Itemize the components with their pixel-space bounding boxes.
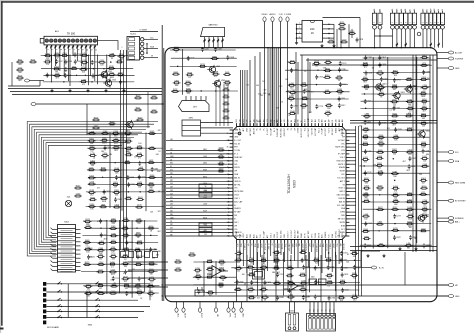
resistor R455 (391, 115, 393, 117)
svg-text:4U7: 4U7 (125, 288, 128, 290)
svg-text:4U7: 4U7 (422, 182, 425, 184)
svg-text:L119: L119 (125, 160, 129, 162)
svg-text:GND: GND (455, 68, 460, 70)
resistor D385 (300, 105, 302, 107)
capacitor C824 (125, 270, 127, 272)
wire horizontal link (88, 162, 163, 164)
svg-text:2K2: 2K2 (236, 119, 238, 122)
resistor C415 (147, 191, 149, 193)
connector X601 pin 2 (293, 315, 296, 326)
resistor R421 (88, 140, 90, 142)
resistor D199 (194, 276, 196, 278)
svg-text:L273: L273 (422, 63, 426, 65)
svg-text:IF- 2: IF- 2 (234, 154, 238, 156)
svg-text:GND: GND (234, 136, 239, 138)
resistor D249 (88, 147, 90, 149)
svg-text:100: 100 (414, 9, 416, 12)
resistor C418 (405, 79, 407, 81)
pin hatch (50, 45, 52, 47)
svg-text:R702: R702 (176, 260, 181, 262)
resistor R111 (16, 61, 18, 63)
resistor L736 (377, 172, 379, 174)
svg-text:SIF OUT: SIF OUT (338, 219, 346, 221)
svg-text:4K7: 4K7 (263, 89, 266, 91)
connector X1601 pin 2 (378, 13, 382, 24)
transistor V605 (418, 215, 424, 221)
connector X1603 pin 2 (425, 13, 429, 24)
junction dot (110, 61, 111, 62)
resistor L649 (223, 89, 225, 91)
svg-text:IF+ REF: IF+ REF (338, 154, 346, 156)
pin hatch (430, 43, 432, 45)
resistor D989 (350, 275, 352, 277)
svg-text:471: 471 (214, 76, 217, 78)
resistor C222 (150, 111, 152, 113)
svg-text:C165: C165 (137, 219, 142, 221)
resistor D669 (83, 241, 85, 243)
svg-text:560: 560 (317, 261, 320, 263)
svg-text:680: 680 (272, 272, 275, 274)
junction dot (139, 191, 140, 192)
resistor D690 (147, 184, 149, 186)
b+ routing (361, 251, 380, 268)
svg-text:L851: L851 (236, 258, 240, 260)
resistor R772 (223, 96, 225, 98)
svg-text:C884: C884 (130, 184, 135, 186)
svg-text:L416: L416 (111, 240, 115, 242)
svg-text:GND: GND (247, 127, 249, 132)
resistor C379 (116, 61, 118, 63)
svg-text:R778: R778 (406, 114, 411, 116)
connector X602 body (307, 314, 336, 332)
resistor L735 (109, 248, 111, 250)
resistor C564 (247, 289, 249, 291)
wire horizontal link (41, 68, 133, 70)
svg-text:103: 103 (138, 186, 141, 188)
svg-text:102: 102 (55, 57, 58, 59)
svg-text:OSD 1: OSD 1 (234, 198, 239, 200)
terminal VD (215, 302, 217, 308)
capacitor C141 (137, 254, 139, 256)
svg-text:SCL: SCL (150, 37, 154, 39)
svg-text:1U: 1U (442, 9, 444, 11)
resistor R919 (323, 76, 325, 78)
svg-text:D790: D790 (195, 268, 200, 270)
resistor R352 (406, 223, 408, 225)
svg-text:C515: C515 (100, 60, 105, 62)
svg-text:10K: 10K (122, 249, 125, 251)
svg-text:4U7: 4U7 (114, 143, 117, 145)
svg-text:330: 330 (330, 309, 332, 312)
wire horizontal link (285, 69, 348, 71)
resistor R955 (172, 73, 174, 75)
wire horizontal link (362, 223, 432, 225)
svg-text:C370: C370 (106, 191, 111, 193)
wire horizontal link (85, 249, 157, 251)
svg-text:R223: R223 (138, 118, 143, 120)
wire horizontal link (360, 64, 432, 66)
resistor R166 (248, 260, 250, 262)
IC U301 left pins (230, 129, 233, 131)
capacitor C364 (303, 89, 305, 91)
svg-text:103: 103 (311, 119, 313, 122)
svg-text:0.1: 0.1 (327, 286, 330, 288)
svg-text:SDA 1: SDA 1 (300, 233, 303, 238)
svg-text:330: 330 (393, 154, 396, 156)
svg-text:C581: C581 (288, 273, 293, 275)
svg-text:2K2: 2K2 (158, 211, 161, 213)
svg-text:C622: C622 (262, 265, 267, 267)
capacitor C579 (339, 61, 341, 63)
resistor R769 (99, 169, 101, 171)
resistor R114 (29, 61, 31, 63)
resistor D320 (376, 151, 378, 153)
svg-text:D103: D103 (123, 277, 128, 279)
svg-text:R427: R427 (421, 113, 426, 115)
svg-text:VOL 1: VOL 1 (270, 233, 272, 238)
keyboard wires and switches (46, 283, 150, 285)
svg-text:C375: C375 (124, 248, 129, 250)
resistor D919 (125, 148, 127, 150)
resistor C653 (420, 78, 422, 80)
svg-text:100: 100 (393, 176, 396, 178)
svg-text:471: 471 (170, 170, 173, 172)
pin hatch (217, 39, 219, 41)
svg-text:AFT FIL: AFT FIL (234, 183, 240, 186)
svg-text:560: 560 (99, 259, 102, 261)
svg-text:R237: R237 (55, 53, 60, 55)
svg-text:220: 220 (419, 174, 422, 176)
svg-text:R336: R336 (186, 89, 191, 91)
wire junction to bus (146, 44, 148, 53)
svg-text:0.1: 0.1 (302, 292, 305, 294)
svg-text:SDA: SDA (455, 160, 460, 163)
switch (58, 290, 61, 292)
svg-text:100: 100 (379, 175, 382, 177)
svg-text:V605: V605 (425, 214, 429, 216)
svg-text:L458: L458 (203, 204, 207, 206)
svg-text:100K: 100K (129, 249, 133, 251)
svg-text:HP R: HP R (233, 313, 235, 318)
resistor R258 (212, 73, 214, 75)
resistor C165 (135, 220, 137, 222)
connector J101 pin 11 (89, 39, 92, 42)
resistor C264 (235, 253, 237, 255)
svg-text:220: 220 (408, 226, 411, 228)
resistor C402 (98, 242, 100, 244)
wire vertical link (119, 220, 121, 293)
wire vertical link (109, 133, 111, 209)
svg-text:KEY BOARD: KEY BOARD (47, 326, 60, 329)
svg-text:R221: R221 (136, 108, 141, 110)
svg-text:471: 471 (138, 158, 141, 160)
svg-text:MUTE: MUTE (318, 232, 320, 238)
above-IC singles (249, 60, 251, 127)
svg-text:D162: D162 (124, 233, 129, 235)
svg-text:102: 102 (277, 272, 280, 274)
resistor R982 (248, 297, 250, 299)
svg-text:SAW F301: SAW F301 (208, 23, 217, 26)
svg-text:D594: D594 (150, 175, 155, 177)
svg-text:D629: D629 (123, 254, 128, 256)
connector X1201 wires (144, 38, 158, 40)
main board outline (165, 48, 437, 302)
junction dot (103, 68, 104, 69)
resistor R753 (79, 68, 81, 70)
svg-text:22P: 22P (170, 231, 173, 233)
resistor C288 (108, 55, 110, 57)
svg-text:560: 560 (204, 225, 207, 227)
resistor C609 (324, 112, 326, 114)
resistor R821 (110, 285, 112, 287)
svg-text:R414: R414 (220, 260, 225, 262)
svg-text:VIDEO: VIDEO (262, 14, 268, 16)
junction dot (393, 158, 394, 159)
svg-text:4U7: 4U7 (103, 239, 106, 241)
resistor C821 (421, 57, 423, 59)
connector X1201 pin 2 (129, 42, 135, 45)
wire vertical link (106, 55, 108, 82)
resistor D883 (147, 293, 149, 295)
capacitor C888 (423, 70, 425, 72)
resistor D518 (218, 149, 220, 151)
svg-text:C767: C767 (279, 274, 284, 276)
capacitor C216 (353, 265, 355, 267)
svg-text:SIF 1: SIF 1 (234, 222, 238, 224)
transistor V604 (419, 131, 425, 137)
svg-text:0.1: 0.1 (209, 272, 212, 274)
svg-text:CVBS IN: CVBS IN (234, 232, 242, 234)
resistor C123 (340, 41, 342, 43)
capacitor C743 (340, 251, 342, 253)
wires upper extension (147, 92, 149, 128)
resistor R237 (117, 55, 119, 57)
svg-text:C277: C277 (396, 216, 401, 218)
resistor R153 (391, 86, 393, 88)
ground (333, 44, 335, 46)
svg-text:104: 104 (315, 262, 318, 264)
svg-text:4K7: 4K7 (55, 78, 58, 80)
svg-text:C478: C478 (359, 39, 364, 41)
resistor D436 (109, 263, 111, 265)
svg-text:0.1: 0.1 (311, 92, 314, 94)
connector X1201 pin 4 (129, 52, 135, 55)
svg-text:100K: 100K (421, 147, 426, 149)
svg-text:D434: D434 (393, 186, 398, 188)
svg-text:IF+ OUT: IF+ OUT (267, 127, 269, 135)
capacitor C773 (316, 104, 318, 106)
ground (321, 44, 323, 46)
left inside boxed labels (199, 184, 212, 188)
resistor D782 (109, 256, 111, 258)
wire vertical link (144, 220, 146, 292)
IC N101 24C16 body (302, 21, 323, 43)
resistor R584 (420, 144, 422, 146)
capacitor C160 (302, 295, 304, 297)
svg-text:AGC: AGC (241, 314, 244, 319)
svg-text:4K7: 4K7 (170, 187, 173, 189)
junction dot (354, 260, 355, 261)
svg-text:R121: R121 (340, 22, 345, 24)
svg-text:MUTE DEC: MUTE DEC (335, 147, 345, 149)
svg-text:D759: D759 (407, 128, 412, 130)
resistor R473 (148, 263, 150, 265)
connector X1602 pin 1 (390, 13, 394, 24)
resistor C628 (136, 183, 138, 185)
resistor R397 (377, 143, 379, 145)
wire vertical link (257, 252, 259, 296)
svg-text:L864: L864 (364, 186, 368, 188)
svg-text:D374: D374 (261, 258, 266, 260)
svg-text:22P: 22P (170, 173, 173, 175)
svg-text:IF+ CAP: IF+ CAP (263, 230, 266, 238)
wire horizontal link (360, 244, 432, 246)
connector X602 pin 3 (317, 315, 320, 318)
resistor C573 (136, 242, 138, 244)
resistor R174 (147, 227, 149, 229)
IC U301 top pins (236, 123, 238, 126)
wire vertical link (309, 252, 311, 292)
wire horizontal link (86, 191, 164, 193)
above-IC horizontals (300, 54, 437, 56)
svg-text:GND: GND (274, 233, 276, 238)
capacitor C943 (138, 277, 140, 279)
resistor C840 (134, 249, 136, 251)
svg-text:ABL+: ABL+ (455, 220, 461, 223)
resistor R262 (89, 199, 91, 201)
svg-text:100K: 100K (102, 201, 107, 203)
svg-text:330: 330 (124, 266, 127, 268)
above-IC vertical wires from terminals (264, 48, 266, 127)
capacitor C759 (316, 75, 318, 77)
svg-text:R652: R652 (364, 178, 369, 180)
capacitor C465 (126, 291, 128, 293)
wire horizontal link (361, 201, 429, 203)
svg-text:C703: C703 (176, 268, 181, 270)
connector J101 pin 1 (45, 39, 48, 42)
resistor D732 (171, 91, 173, 93)
svg-text:8K2: 8K2 (158, 231, 161, 233)
resistor R468 (218, 269, 220, 271)
svg-text:L691: L691 (301, 287, 305, 289)
connector X1603 pin 1 (421, 13, 425, 24)
capacitor C567 (365, 221, 367, 223)
svg-text:6: 6 (380, 22, 382, 23)
svg-text:C654: C654 (122, 81, 127, 83)
svg-text:L565: L565 (363, 77, 367, 79)
IC N101 wires down (333, 24, 335, 47)
junction dot (290, 260, 291, 261)
svg-text:GND IN: GND IN (234, 181, 241, 183)
svg-text:R174: R174 (149, 226, 154, 228)
filter Z201 body (201, 27, 225, 36)
capacitor C111 (341, 266, 343, 268)
pin hatch (94, 45, 96, 47)
svg-text:8K2: 8K2 (18, 80, 21, 82)
wire horizontal link (88, 184, 163, 186)
capacitor C506 (187, 56, 189, 58)
svg-text:2K2: 2K2 (170, 200, 173, 202)
tuner block pins (185, 96, 187, 101)
pin hatch (68, 45, 70, 47)
terminal P.OUT (199, 302, 201, 308)
svg-text:L140: L140 (394, 135, 398, 137)
resistor L876 (206, 269, 208, 271)
wire from jack to mid (98, 41, 119, 50)
svg-text:MUTE DEC: MUTE DEC (281, 127, 283, 137)
resistor L947 (377, 245, 379, 247)
svg-text:R368: R368 (352, 251, 357, 253)
resistor C708 (84, 227, 86, 229)
svg-text:D436: D436 (224, 102, 229, 104)
wire horizontal link (83, 220, 157, 222)
resistor L140 (392, 136, 394, 138)
svg-text:R720: R720 (422, 186, 427, 188)
resistor C149 (109, 292, 111, 294)
svg-text:D462: D462 (203, 163, 207, 165)
pin hatch (46, 45, 48, 47)
svg-text:VOUT 2: VOUT 2 (288, 232, 290, 238)
resistor L423 (147, 162, 149, 164)
resistor C358 (376, 157, 378, 159)
svg-text:R111: R111 (18, 60, 22, 62)
svg-text:R736: R736 (124, 218, 129, 220)
resistor C474 (172, 49, 174, 51)
svg-text:103: 103 (340, 300, 343, 302)
resistor C311 (406, 194, 408, 196)
svg-text:0.1: 0.1 (111, 266, 114, 268)
svg-text:2K2: 2K2 (324, 91, 327, 93)
resistor L743 (261, 296, 263, 298)
svg-text:0.1: 0.1 (426, 9, 428, 11)
resistor D516 (273, 282, 275, 284)
page frame left border (1, 1, 2, 326)
wire horizontal link (362, 129, 430, 131)
svg-text:C415: C415 (149, 189, 154, 191)
connector X602 pin 6 (329, 315, 332, 318)
svg-text:C946: C946 (239, 281, 244, 283)
svg-text:C123: C123 (342, 40, 347, 42)
svg-text:TU1 IN: TU1 IN (234, 150, 240, 152)
resistor D613 (313, 62, 315, 64)
svg-text:R216: R216 (94, 118, 99, 120)
crystal boxes (309, 279, 317, 285)
resistor D616 (288, 62, 290, 64)
svg-text:4: 4 (434, 22, 436, 23)
svg-text:L423: L423 (149, 160, 153, 162)
wire horizontal link (363, 208, 432, 210)
svg-text:D315: D315 (45, 60, 50, 62)
svg-text:103: 103 (285, 79, 288, 81)
svg-text:C790: C790 (207, 275, 212, 277)
resistor C614 (113, 206, 115, 208)
svg-text:0.1: 0.1 (111, 279, 114, 281)
resistor R420 (148, 278, 150, 280)
svg-text:D904: D904 (379, 135, 384, 137)
resistor C186 (101, 133, 103, 135)
svg-text:ABL IN: ABL IN (339, 200, 345, 203)
svg-text:100: 100 (90, 143, 93, 145)
svg-text:C739: C739 (364, 199, 369, 201)
wire vertical link (335, 252, 337, 291)
resistor R916 (324, 70, 326, 72)
svg-text:R197: R197 (393, 207, 398, 209)
resistor D849 (207, 292, 209, 294)
resistor D560 (147, 270, 149, 272)
svg-text:C714: C714 (102, 220, 107, 222)
resistor C902 (97, 264, 99, 266)
switch (58, 282, 61, 284)
